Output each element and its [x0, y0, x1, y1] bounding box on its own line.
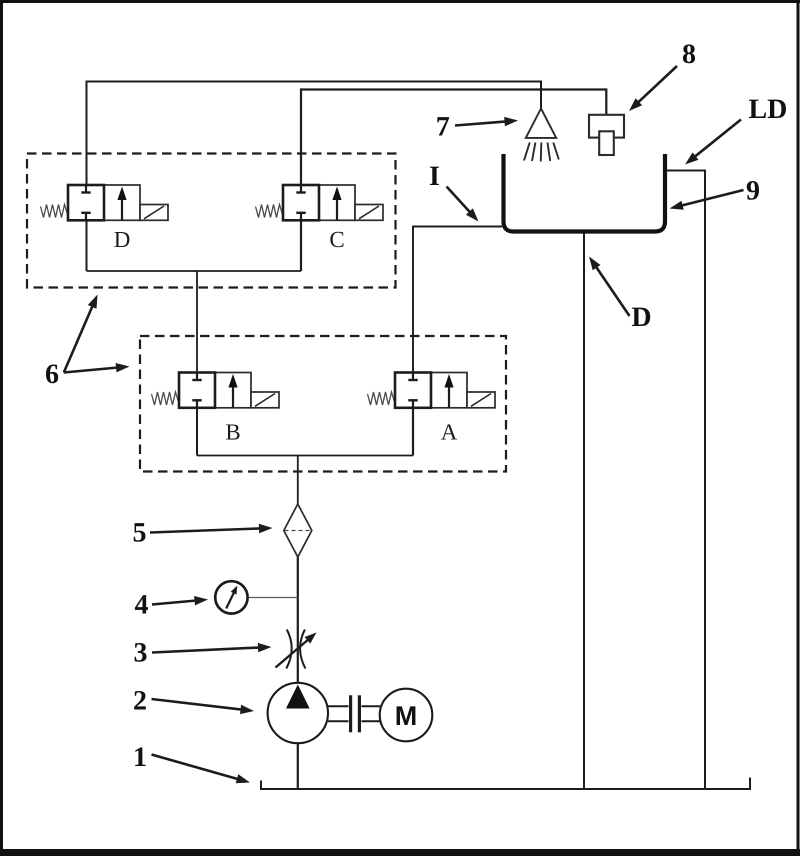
valve C body — [283, 185, 355, 220]
label 4 — [135, 590, 209, 621]
dashed enclosure: valves D and C — [27, 154, 396, 288]
valve D spring — [41, 205, 68, 218]
sensor 8 — [589, 115, 624, 155]
label LD — [685, 94, 787, 165]
svg-text:5: 5 — [133, 518, 147, 549]
valve A body — [395, 373, 467, 408]
wire: valve C top to sensor 8 — [301, 90, 606, 187]
label 1 — [133, 742, 250, 783]
wire: B-A junction bar — [197, 455, 413, 457]
wire: pump down to tank — [297, 743, 299, 790]
wire: valve D bottom drop — [86, 219, 88, 271]
wire: filter down to pump — [297, 557, 299, 684]
svg-text:1: 1 — [133, 742, 147, 773]
valve D solenoid — [140, 205, 168, 221]
svg-text:2: 2 — [133, 686, 147, 717]
shaft coupling pump-motor — [328, 695, 380, 732]
wire: valve A up to tank inlet I — [413, 227, 502, 374]
svg-text:8: 8 — [682, 39, 696, 70]
valve C spring — [256, 205, 283, 218]
valve C solenoid — [355, 205, 383, 221]
wire: junction down to filter — [297, 456, 299, 505]
svg-text:7: 7 — [436, 111, 450, 142]
filter 5 (diamond) — [284, 504, 312, 557]
valve A spring — [368, 392, 395, 405]
valve A solenoid — [467, 392, 495, 408]
electric motor M — [380, 689, 433, 742]
valve D body — [68, 185, 140, 220]
vessel 9 (bath) — [504, 154, 666, 232]
label 8 — [629, 39, 696, 111]
svg-text:M: M — [395, 701, 418, 731]
wire: LD overflow pipe — [665, 171, 705, 790]
label 6 (double arrow) — [45, 295, 130, 391]
pump 2 — [268, 683, 328, 743]
wire: valve A bottom drop — [412, 407, 414, 456]
label 9 — [670, 175, 761, 210]
svg-text:B: B — [225, 420, 240, 445]
svg-text:D: D — [114, 227, 131, 252]
label I — [429, 161, 478, 222]
valve B body — [179, 373, 251, 408]
dashed enclosure: valves B and A — [140, 336, 506, 472]
label 7 — [436, 111, 518, 142]
svg-text:3: 3 — [134, 638, 148, 669]
svg-text:D: D — [631, 302, 651, 333]
svg-text:6: 6 — [45, 359, 59, 390]
valve B solenoid — [251, 392, 279, 408]
wire: D-C junction bar — [87, 270, 302, 272]
label 3 — [134, 638, 272, 669]
pressure gauge 4 — [215, 581, 247, 613]
throttle valve 3 — [276, 630, 317, 669]
label 2 — [133, 686, 254, 717]
svg-text:LD: LD — [749, 94, 788, 125]
spray nozzle 7 — [524, 109, 559, 162]
wire: junction down to valve B — [196, 271, 198, 373]
wire: gauge connector — [247, 597, 298, 599]
svg-text:C: C — [329, 227, 344, 252]
wire: valve B bottom drop — [196, 407, 198, 456]
tank 1 (reservoir) — [261, 778, 750, 790]
svg-text:I: I — [429, 161, 440, 192]
label D (drain) — [589, 257, 652, 333]
svg-text:9: 9 — [746, 175, 760, 206]
wire: valve C bottom drop — [300, 219, 302, 271]
wire: drain D line from vessel to tank — [583, 232, 585, 789]
valve B spring — [152, 392, 179, 405]
wire: valve D top to spray nozzle — [87, 82, 542, 187]
svg-text:A: A — [441, 420, 458, 445]
svg-text:4: 4 — [135, 590, 149, 621]
label 5 — [133, 518, 273, 549]
